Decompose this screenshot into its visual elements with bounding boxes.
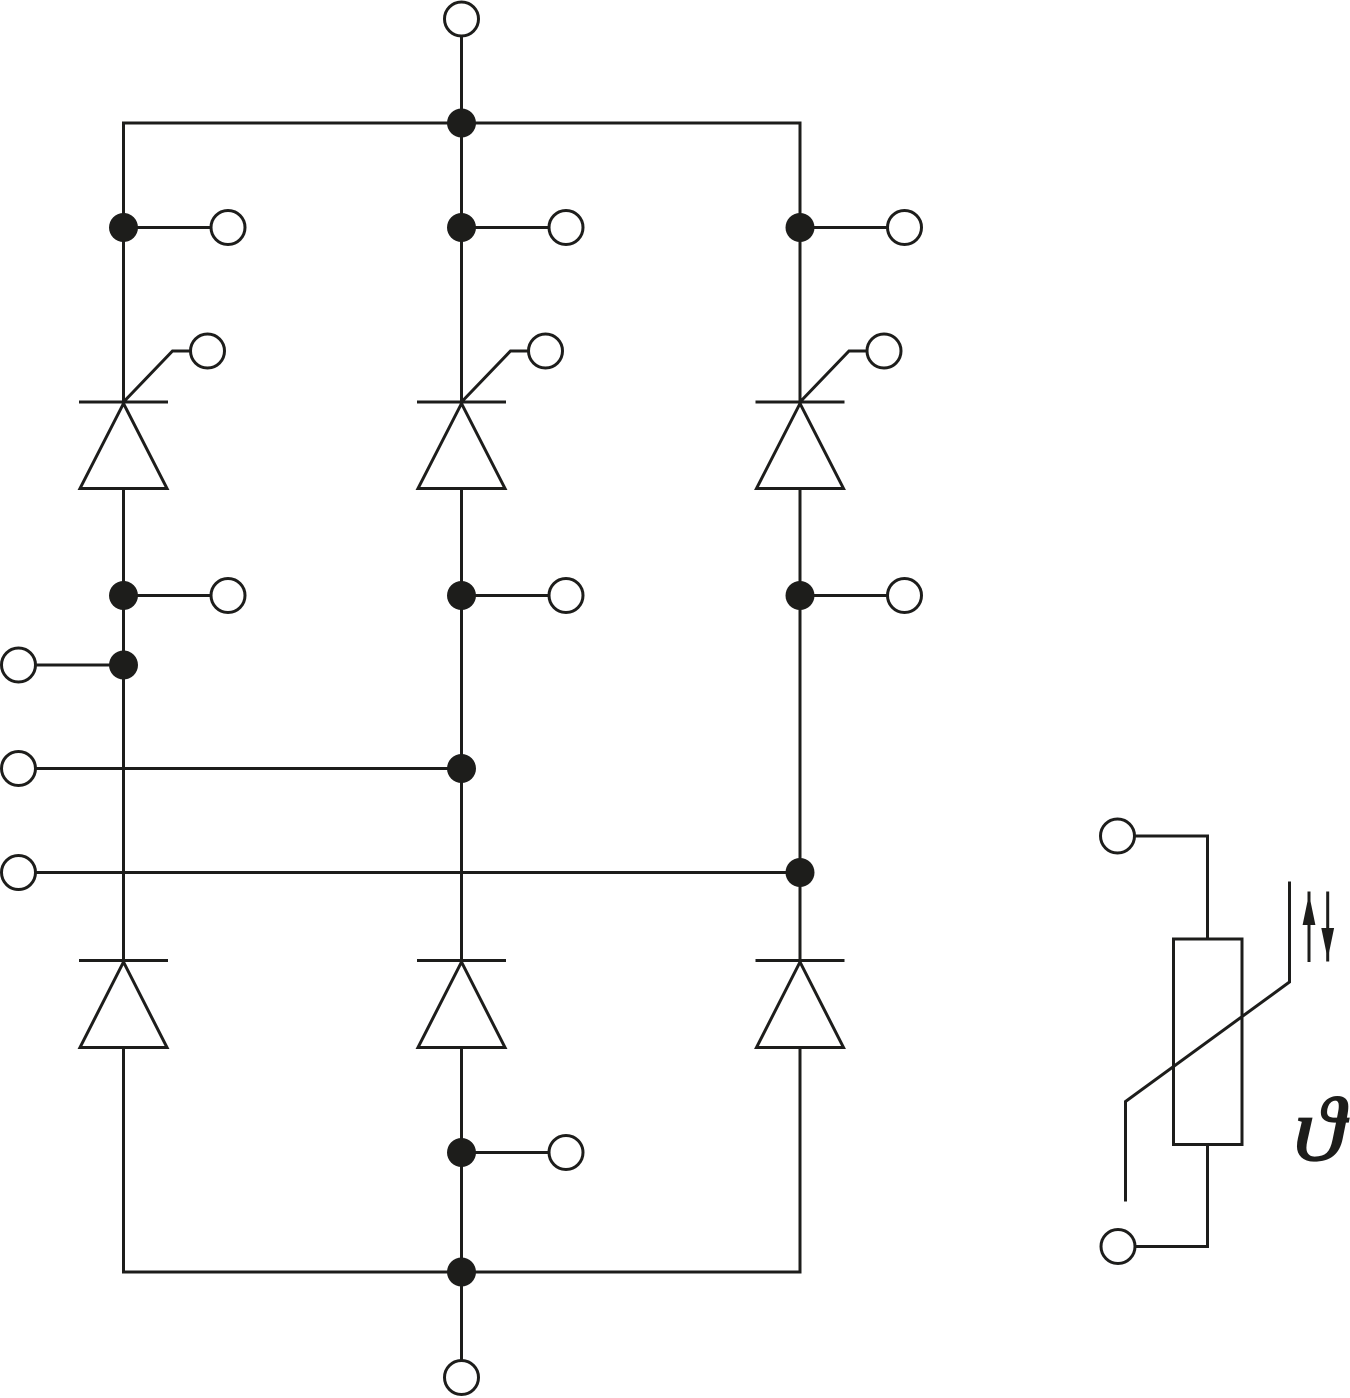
node anode tap middle <box>447 213 476 242</box>
terminal cathode tap middle <box>549 579 583 613</box>
terminal thermistor top <box>1101 819 1135 853</box>
diode D2 <box>79 961 168 1048</box>
wire top terminal to top bus <box>460 37 463 124</box>
terminal cathode tap left <box>211 579 245 613</box>
node cathode tap right <box>786 581 815 610</box>
terminal anode tap middle <box>549 211 583 245</box>
terminal AC phase L2 <box>2 752 36 786</box>
wire middle leg middle <box>460 489 463 961</box>
node AC L2 junction <box>447 754 476 783</box>
wire anode stub left <box>124 226 212 229</box>
svg-text:ϑ: ϑ <box>1293 1080 1350 1180</box>
wire right leg upper <box>799 122 802 403</box>
terminal gate T3 <box>529 334 563 368</box>
wire cathode stub right <box>800 594 888 597</box>
node cathode tap left <box>109 581 138 610</box>
wire gate lead T1 <box>124 351 191 402</box>
wire right leg middle <box>799 489 802 961</box>
wire DC- stub middle <box>462 1151 550 1154</box>
wire middle leg upper <box>460 123 463 402</box>
wire right leg lower <box>799 1048 802 1274</box>
wire AC phase L1 <box>36 664 124 667</box>
wire top bus <box>122 122 802 125</box>
wire bottom bus to DC- terminal <box>460 1272 463 1361</box>
label theta <box>1293 1080 1350 1180</box>
wire middle leg lower <box>460 1048 463 1273</box>
terminal cathode tap right <box>888 579 922 613</box>
node AC L3 junction <box>786 858 815 887</box>
diode D4 <box>417 961 506 1048</box>
node DC- tap middle <box>447 1138 476 1167</box>
node bottom bus junction <box>447 1258 476 1287</box>
thyristor T1 <box>79 402 168 489</box>
wire left leg middle <box>122 489 125 961</box>
node cathode tap middle <box>447 581 476 610</box>
wire AC phase L3 <box>36 871 800 874</box>
wire gate lead T5 <box>800 351 867 402</box>
wire left leg upper <box>122 122 125 403</box>
wire AC phase L2 <box>36 767 462 770</box>
thyristor T5 <box>756 402 845 489</box>
terminal thermistor bottom <box>1101 1230 1135 1264</box>
terminal anode tap right <box>888 211 922 245</box>
terminal anode tap left <box>211 211 245 245</box>
wire cathode stub middle <box>462 594 550 597</box>
node AC L1 junction <box>109 651 138 680</box>
DC- terminal (bottom open circle) <box>445 1361 479 1395</box>
terminal AC phase L3 <box>2 856 36 890</box>
wire thermistor bottom lead <box>1135 1145 1208 1247</box>
thermistor R1 body <box>1174 939 1243 1145</box>
terminal DC- tap middle <box>549 1136 583 1170</box>
terminal AC phase L1 <box>2 648 36 682</box>
wire thermistor top lead <box>1135 836 1208 939</box>
diode D6 <box>756 961 845 1048</box>
wire left leg lower <box>122 1048 125 1274</box>
wire gate lead T3 <box>462 351 529 402</box>
thermistor characteristic stroke <box>1126 882 1290 1202</box>
arrow up (temperature rise) <box>1303 892 1316 963</box>
wire cathode stub left <box>124 594 212 597</box>
wire bottom bus <box>122 1271 802 1274</box>
terminal gate T5 <box>867 334 901 368</box>
wire anode stub right <box>800 226 888 229</box>
node anode tap left <box>109 213 138 242</box>
thyristor T3 <box>417 402 506 489</box>
node top bus junction <box>447 109 476 138</box>
terminal gate T1 <box>191 334 225 368</box>
arrow down (temperature fall) <box>1321 892 1334 962</box>
wire anode stub middle <box>462 226 550 229</box>
DC+ terminal (top open circle) <box>445 2 479 36</box>
node anode tap right <box>786 213 815 242</box>
